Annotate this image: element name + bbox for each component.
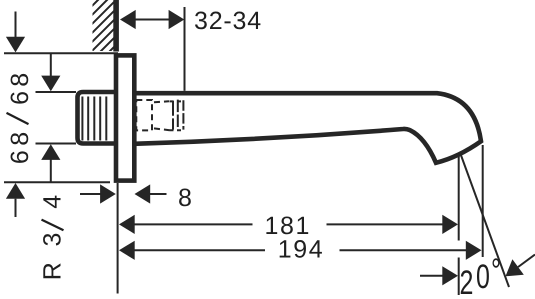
- pipe thread lines: [82, 97, 106, 141]
- dimension 181 line right segment: [327, 223, 444, 225]
- dimension 32-34 right arrow: [169, 10, 185, 29]
- 20 degree left arrow: [420, 275, 444, 277]
- pipe bottom extension line: [36, 143, 77, 145]
- flange bottom extension line: [4, 181, 110, 183]
- wall face line: [113, 0, 119, 52]
- dimension 194 line right segment: [340, 249, 468, 251]
- wall flange (escutcheon): [116, 55, 134, 180]
- dimension 32-34 line: [135, 19, 169, 21]
- hidden connector taper bottom: [154, 128, 170, 130]
- label 68/68 slash: [7, 113, 29, 124]
- 68/68 upper inner arrow: [50, 53, 52, 78]
- pipe top extension line: [36, 91, 77, 93]
- svg-text:3: 3: [39, 233, 67, 247]
- 20 degree right arrow: [506, 259, 524, 276]
- 68/68 top outer arrow: [15, 12, 17, 39]
- dimension 181 right arrow: [442, 215, 458, 234]
- dimension 8 right arrow: [135, 184, 151, 203]
- svg-text:32-34: 32-34: [194, 7, 262, 35]
- wall hatching: [38, 0, 230, 60]
- dimension 194 line left segment: [134, 249, 266, 251]
- dimension 194 left arrow: [119, 241, 135, 260]
- dimension 181 left arrow: [119, 215, 135, 234]
- svg-text:8: 8: [178, 184, 192, 212]
- 68/68 bottom outer arrow: [6, 183, 25, 199]
- dimension 181 line left segment: [134, 223, 253, 225]
- spout tip upper extension line: [482, 145, 484, 257]
- svg-text:°: °: [491, 252, 501, 290]
- dimension 32-34 left arrow: [120, 10, 136, 29]
- 68/68 lower inner arrow: [41, 144, 60, 160]
- dimension 8 left arrow: [80, 193, 101, 195]
- hidden connector end cap lines: [172, 101, 174, 130]
- hidden connector dashed rectangle: [136, 100, 183, 131]
- svg-text:68: 68: [6, 127, 34, 164]
- svg-text:68: 68: [6, 69, 34, 105]
- dimension 32-34 extension line: [184, 7, 186, 91]
- svg-text:194: 194: [278, 236, 325, 264]
- spout body outline: [134, 93, 481, 163]
- dimension 194 right arrow: [466, 241, 482, 260]
- 68/68 top extension line: [4, 52, 118, 54]
- wall face extension line (bottom): [117, 183, 119, 294]
- svg-text:0: 0: [476, 258, 490, 296]
- spout tip lower extension line: [458, 153, 460, 241]
- 20 degree slant line: [460, 153, 509, 288]
- svg-text:R: R: [39, 262, 67, 280]
- svg-text:2: 2: [460, 264, 474, 299]
- hidden connector taper top: [154, 101, 169, 102]
- label R 3/4 slash: [42, 220, 64, 231]
- svg-text:4: 4: [39, 195, 67, 209]
- threaded pipe body: [78, 92, 119, 144]
